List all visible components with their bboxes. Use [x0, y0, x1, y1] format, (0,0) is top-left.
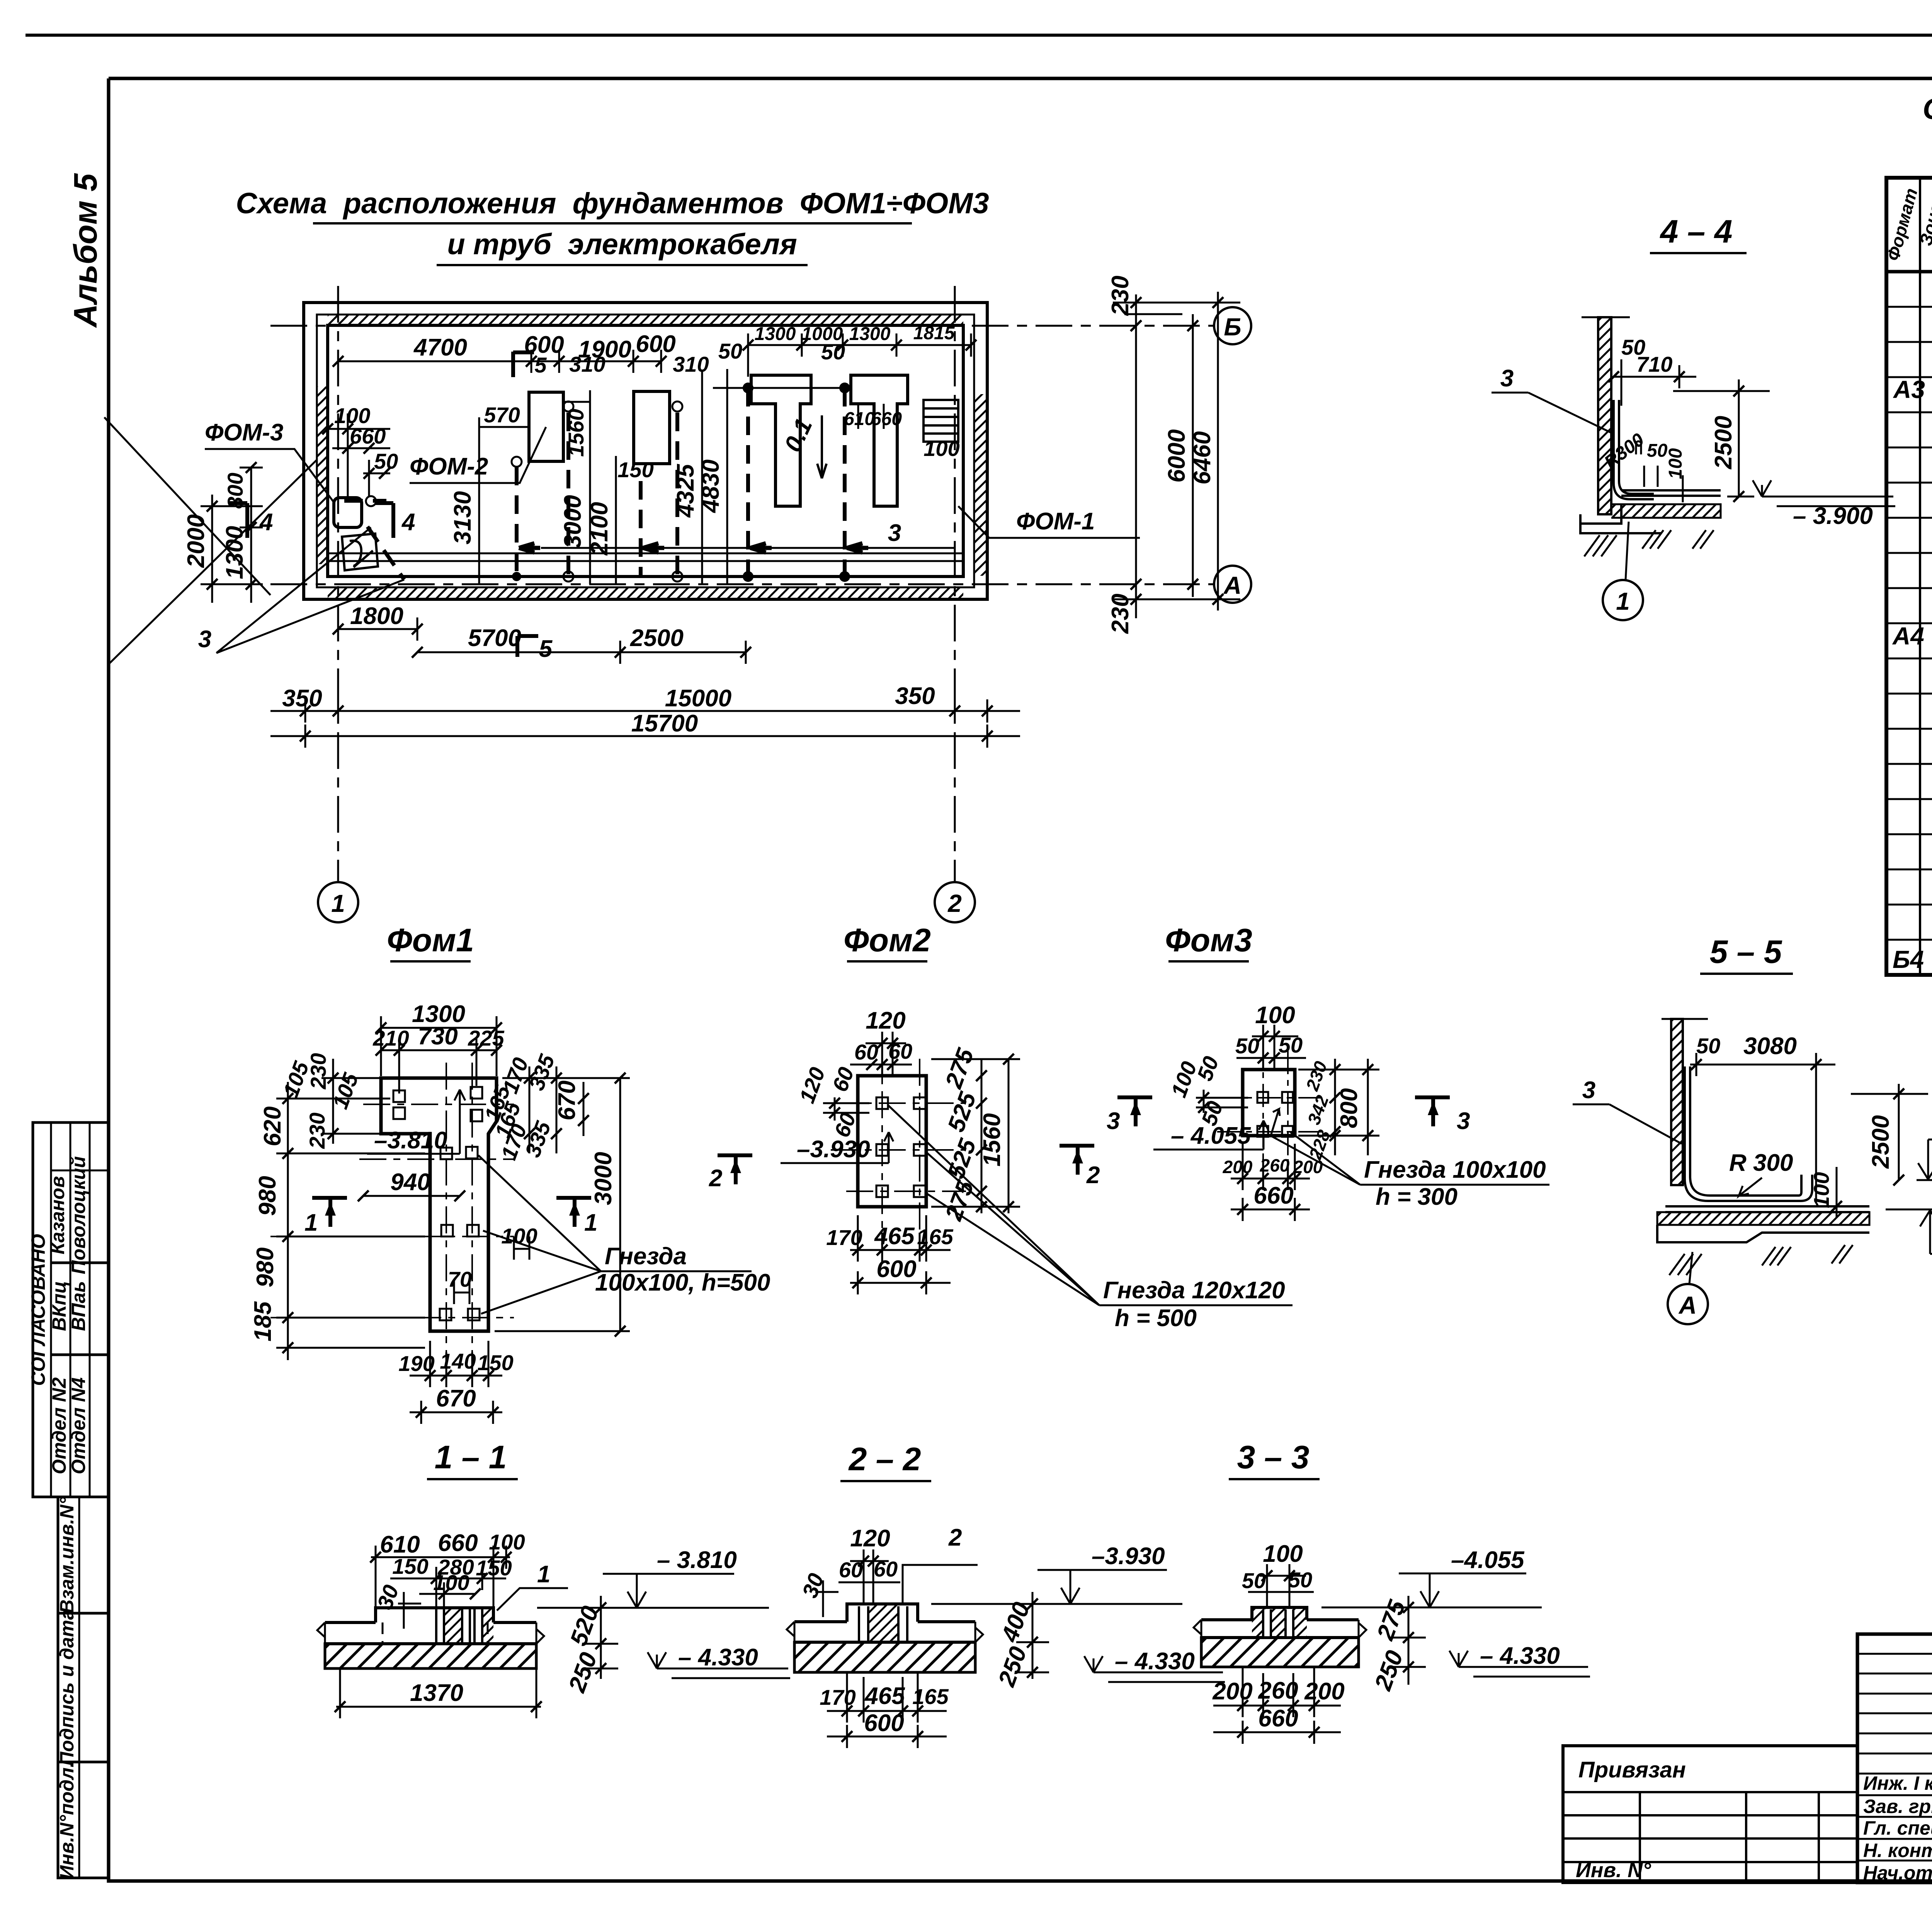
svg-text:50: 50: [1279, 1033, 1303, 1057]
svg-text:50: 50: [821, 340, 845, 364]
wall: [1662, 1018, 1708, 1020]
svg-text:4: 4: [259, 509, 273, 536]
svg-text:3080: 3080: [1743, 1033, 1797, 1060]
level -3.810: [628, 1592, 646, 1608]
svg-text:670: 670: [554, 1080, 580, 1120]
level -4.330: [1084, 1656, 1103, 1672]
svg-text:570: 570: [484, 403, 520, 427]
axis circle Б: [1214, 307, 1251, 344]
left vertical dims 2000 1300 800: [201, 468, 263, 603]
svg-text:660: 660: [1258, 1705, 1298, 1732]
svg-text:1815: 1815: [913, 323, 955, 344]
axis circle 1: [318, 882, 358, 922]
section mark 2 upper right: [718, 1155, 752, 1184]
bottom dims: [850, 1215, 951, 1294]
svg-text:150: 150: [476, 1556, 512, 1580]
svg-text:1: 1: [584, 1209, 597, 1236]
T outline: [381, 1078, 497, 1331]
bottom dim 1800: [338, 617, 417, 641]
svg-text:230: 230: [306, 1053, 330, 1089]
svg-text:ФОМ-1: ФОМ-1: [1016, 508, 1095, 535]
svg-text:50: 50: [1696, 1034, 1720, 1058]
wall hatch right: [974, 394, 987, 576]
svg-text:Фом2: Фом2: [844, 922, 931, 958]
svg-text:15000: 15000: [665, 685, 731, 712]
svg-text:Гнезда 100х100: Гнезда 100х100: [1364, 1156, 1546, 1183]
bottom dims 200 260 200 / 660: [1213, 1667, 1341, 1744]
svg-text:А4: А4: [1892, 622, 1924, 650]
гнезда squares: [393, 1087, 482, 1320]
svg-text:– 3.900: – 3.900: [1793, 503, 1873, 529]
callout circle А: [1668, 1284, 1708, 1324]
vertical dims 275 250: [1391, 1596, 1426, 1685]
svg-text:465: 465: [874, 1223, 915, 1250]
svg-text:100: 100: [1263, 1541, 1303, 1567]
grill at right wall: [923, 400, 958, 442]
svg-text:230: 230: [305, 1112, 329, 1149]
axis Б: [270, 286, 1214, 881]
svg-text:ВПаь: ВПаь: [68, 1281, 89, 1331]
svg-text:Фом3: Фом3: [1165, 922, 1252, 958]
svg-text:Б: Б: [1224, 313, 1241, 341]
pipe end circles: [512, 401, 682, 582]
svg-text:– 4.330: – 4.330: [678, 1644, 758, 1671]
svg-text:А: А: [1223, 571, 1242, 599]
building wall inner line: [328, 325, 963, 577]
svg-text:660: 660: [438, 1530, 478, 1556]
svg-text:50: 50: [374, 449, 398, 473]
centerlines: [1217, 1043, 1325, 1159]
arrow inside: [1271, 1109, 1280, 1134]
svg-text:3000: 3000: [590, 1152, 617, 1205]
svg-text:50: 50: [718, 339, 742, 363]
svg-text:310: 310: [569, 352, 605, 376]
thin measure verticals in plan: [479, 369, 884, 584]
level -3.930: [1061, 1588, 1080, 1604]
dim row top-right: 1300 1000 1300 1815: [748, 333, 971, 377]
svg-text:5: 5: [539, 636, 553, 662]
svg-text:Отдел N4: Отдел N4: [68, 1378, 89, 1475]
svg-text:60: 60: [839, 1558, 863, 1582]
svg-text:6000: 6000: [1163, 429, 1190, 483]
pipe: [1685, 1066, 1812, 1201]
specification table: [1883, 178, 1932, 976]
section mark 4 left: [230, 503, 247, 538]
section marks 2-2: [1060, 1146, 1094, 1175]
svg-text:и труб электрокабеля: и труб электрокабеля: [447, 228, 797, 261]
top rule: [26, 34, 1932, 37]
svg-text:3: 3: [1500, 365, 1514, 392]
svg-text:310: 310: [673, 352, 709, 376]
svg-text:3: 3: [1457, 1108, 1470, 1134]
svg-text:100: 100: [1809, 1172, 1833, 1208]
section mark 5 top: [511, 352, 515, 377]
svg-text:185: 185: [250, 1301, 276, 1342]
svg-text:2500: 2500: [1867, 1115, 1894, 1169]
svg-text:140: 140: [440, 1349, 476, 1373]
pipe vertical: [1614, 400, 1654, 499]
svg-text:Гнезда: Гнезда: [605, 1243, 687, 1270]
svg-text:Инв.N°подл.: Инв.N°подл.: [56, 1762, 78, 1879]
edge break marks: [317, 1622, 544, 1644]
floor slab: [1665, 1206, 1869, 1212]
svg-text:3 – 3: 3 – 3: [1237, 1439, 1310, 1475]
svg-text:ФОМ-2: ФОМ-2: [410, 453, 488, 480]
centerlines: [831, 1043, 966, 1233]
svg-text:4700: 4700: [413, 334, 467, 361]
svg-text:3: 3: [888, 520, 901, 546]
building outer wall: [304, 303, 987, 599]
axis circle 2: [935, 882, 975, 922]
svg-text:100х100, h=500: 100х100, h=500: [595, 1269, 770, 1296]
svg-text:Зав. гр.: Зав. гр.: [1863, 1796, 1932, 1817]
axis circle А: [1214, 566, 1251, 603]
right vertical dims 520 250: [583, 1596, 618, 1679]
svg-text:50: 50: [1235, 1034, 1259, 1058]
callout circle 1: [1603, 580, 1643, 620]
svg-text:610: 610: [844, 409, 875, 429]
svg-text:Взам.инв.N°: Взам.инв.N°: [56, 1497, 78, 1613]
squares: [1257, 1092, 1293, 1137]
svg-text:–3.930: –3.930: [797, 1136, 870, 1163]
svg-text:260: 260: [1258, 1677, 1298, 1704]
svg-text:710: 710: [1636, 352, 1672, 376]
svg-text:150: 150: [617, 457, 653, 482]
svg-text:980: 980: [252, 1247, 279, 1287]
foundation ФОМ-3 plan: [334, 498, 362, 527]
svg-text:5 – 5: 5 – 5: [1710, 934, 1782, 970]
svg-text:120: 120: [866, 1007, 905, 1034]
svg-text:170: 170: [820, 1685, 855, 1709]
svg-text:1300: 1300: [755, 324, 796, 344]
svg-text:100: 100: [501, 1224, 537, 1248]
svg-text:5700: 5700: [468, 625, 521, 651]
svg-text:Подпись и дата: Подпись и дата: [56, 1609, 78, 1765]
dim 100 / 30: [398, 1582, 475, 1629]
section marks 1-1: [312, 1198, 347, 1227]
svg-text:70: 70: [448, 1267, 472, 1291]
svg-text:660: 660: [1253, 1182, 1293, 1209]
svg-text:2: 2: [947, 889, 962, 917]
svg-text:1370: 1370: [410, 1680, 463, 1706]
svg-text:660: 660: [350, 424, 386, 448]
svg-text:50: 50: [1288, 1568, 1312, 1592]
svg-text:Фом1: Фом1: [387, 922, 474, 958]
svg-text:980: 980: [254, 1176, 281, 1216]
vertical dims 400 250: [1016, 1592, 1049, 1679]
svg-text:165: 165: [917, 1225, 953, 1249]
svg-text:1: 1: [304, 1209, 318, 1236]
rect outline: [1243, 1070, 1295, 1136]
svg-text:– 4.330: – 4.330: [1115, 1648, 1195, 1675]
dims 610 660 100: [371, 1546, 510, 1607]
svg-text:1 – 1: 1 – 1: [435, 1439, 507, 1475]
svg-text:ФОМ-3: ФОМ-3: [205, 419, 283, 446]
svg-text:Нач.отд.: Нач.отд.: [1863, 1862, 1932, 1884]
svg-text:670: 670: [436, 1385, 476, 1412]
svg-text:60: 60: [874, 1557, 898, 1581]
left approval stamp box: [27, 1122, 109, 1497]
squares: [876, 1097, 925, 1197]
floor channel lines inside: [328, 553, 963, 554]
svg-text:6460: 6460: [1189, 431, 1216, 485]
pipe stub: [1636, 441, 1641, 454]
section marks 3-3: [1117, 1097, 1152, 1126]
svg-text:– 4.055: – 4.055: [1171, 1122, 1251, 1149]
ground hatched band: [325, 1644, 536, 1668]
svg-text:3: 3: [198, 626, 211, 653]
channels: [1263, 1609, 1293, 1638]
svg-text:3: 3: [1582, 1077, 1595, 1104]
svg-text:3000: 3000: [560, 495, 586, 548]
svg-text:4 – 4: 4 – 4: [1660, 213, 1733, 250]
svg-text:100: 100: [489, 1530, 525, 1554]
svg-text:2000: 2000: [183, 514, 209, 568]
svg-text:465: 465: [864, 1683, 905, 1709]
svg-text:Казанов: Казанов: [47, 1176, 68, 1255]
bottom dims 190 140 150 / 670: [410, 1341, 502, 1424]
svg-text:230: 230: [1107, 594, 1134, 634]
foundation ФОМ-2 plan rect 2: [634, 391, 670, 464]
svg-text:Схема расположения фундамент: Схема расположения фундаментов ФОМ1÷ФОМ3: [236, 187, 989, 220]
left inventory stamp box: [56, 1497, 109, 1879]
svg-text:1: 1: [1616, 587, 1630, 615]
dims 150 280 150: [390, 1567, 506, 1607]
svg-text:260: 260: [1260, 1155, 1290, 1175]
ground hatched band: [1201, 1638, 1359, 1667]
svg-text:– 4.330: – 4.330: [1480, 1643, 1560, 1669]
svg-text:4: 4: [401, 509, 415, 536]
svg-text:120: 120: [850, 1525, 890, 1552]
dim 210 730 225: [381, 1039, 497, 1094]
svg-text:100: 100: [1665, 448, 1686, 479]
dim 2500 + level -3.900: [1673, 379, 1770, 497]
small pit square with curl below ФОМ-3: [342, 534, 378, 570]
svg-text:Отдел N2: Отдел N2: [48, 1377, 70, 1474]
section mark 4 right: [376, 503, 393, 538]
svg-text:Н. контр: Н. контр: [1863, 1840, 1932, 1861]
level -4.055: [1420, 1591, 1439, 1607]
bottom dim 15700: [270, 724, 1020, 748]
svg-text:230: 230: [1107, 276, 1134, 316]
foundation ФОМ-1 plan T2: [851, 375, 908, 506]
svg-text:Альбом 5: Альбом 5: [67, 173, 104, 328]
section mark 5 bottom: [517, 634, 538, 638]
svg-text:620: 620: [259, 1106, 286, 1146]
svg-text:А: А: [1678, 1291, 1697, 1319]
foundation ФОМ-1 plan T1: [751, 375, 811, 506]
bottom dim 350 15000 350: [270, 699, 1020, 723]
pipe bottom elbows: [519, 543, 868, 553]
svg-text:150: 150: [477, 1350, 513, 1375]
svg-text:2: 2: [948, 1524, 962, 1551]
ground hatched band: [794, 1642, 975, 1672]
bottom dims 170 465 165 / 600: [827, 1672, 947, 1748]
svg-text:СОГЛАСОВАНО: СОГЛАСОВАНО: [27, 1234, 49, 1386]
svg-text:190: 190: [398, 1351, 434, 1376]
svg-text:200: 200: [1304, 1678, 1344, 1705]
foundation ФОМ-2 plan rect 1: [529, 392, 563, 461]
svg-text:–4.055: –4.055: [1451, 1547, 1525, 1573]
slab and block outline: [794, 1620, 975, 1623]
svg-text:600: 600: [864, 1710, 904, 1736]
svg-text:Гл. спец.: Гл. спец.: [1863, 1817, 1932, 1839]
bottom dim 5700 / 2500: [417, 641, 746, 664]
svg-text:1: 1: [537, 1561, 550, 1588]
svg-text:1800: 1800: [350, 603, 403, 629]
channels: [436, 1608, 482, 1644]
svg-text:1300: 1300: [221, 526, 248, 579]
svg-text:h = 500: h = 500: [1115, 1305, 1197, 1332]
svg-text:– 3.810: – 3.810: [657, 1547, 737, 1573]
svg-text:150: 150: [392, 1554, 428, 1578]
title block: central signature grid: [1857, 1634, 1932, 1891]
svg-text:Инв. N°: Инв. N°: [1576, 1859, 1651, 1882]
level -4.330: [648, 1652, 666, 1668]
svg-text:1300: 1300: [849, 324, 891, 344]
svg-text:3: 3: [1107, 1108, 1120, 1134]
dimension tick marks: [207, 297, 1904, 1742]
svg-text:600: 600: [876, 1256, 916, 1282]
floor slab: [1621, 490, 1721, 496]
rect outline: [858, 1076, 926, 1207]
hidden dashes: [383, 1622, 488, 1644]
wall cut: [1582, 316, 1630, 318]
svg-text:2500: 2500: [1710, 416, 1737, 469]
svg-text:100: 100: [1255, 1002, 1295, 1029]
dim 1370: [336, 1668, 541, 1718]
svg-text:R 300: R 300: [1729, 1150, 1793, 1176]
ground ticks: [1669, 1245, 1853, 1275]
svg-text:h = 300: h = 300: [1376, 1184, 1458, 1210]
svg-text:Инж. I к.: Инж. I к.: [1863, 1772, 1932, 1794]
svg-text:730: 730: [418, 1023, 457, 1050]
centerlines: [270, 1063, 514, 1352]
svg-text:1: 1: [331, 889, 345, 917]
svg-text:800: 800: [223, 473, 247, 509]
block hatch: [444, 1608, 462, 1644]
right vertical dims 230 6000 6460 230: [1113, 292, 1240, 618]
bottom dims 200 260 200 / 660: [1231, 1144, 1310, 1221]
svg-text:4325: 4325: [672, 464, 699, 518]
slab and block outline: [1201, 1618, 1359, 1621]
wall hatch top: [328, 315, 963, 325]
dim 1300: [381, 1016, 497, 1076]
building wall middle line: [317, 315, 974, 587]
svg-text:50: 50: [1647, 440, 1668, 461]
ground hatch ticks: [1584, 530, 1714, 556]
svg-text:200: 200: [1293, 1157, 1323, 1177]
svg-text:–3.810: –3.810: [374, 1127, 447, 1154]
svg-text:165: 165: [912, 1684, 949, 1709]
svg-text:Б4: Б4: [1893, 946, 1924, 973]
svg-text:2500: 2500: [630, 625, 684, 651]
svg-text:Гнезда 120х120: Гнезда 120х120: [1103, 1277, 1285, 1304]
svg-text:1560: 1560: [564, 409, 588, 457]
pipe end dots: [512, 383, 850, 582]
svg-text:15700: 15700: [631, 710, 698, 737]
svg-text:350: 350: [282, 685, 322, 712]
svg-text:–3.930: –3.930: [1092, 1543, 1165, 1570]
svg-text:2 – 2: 2 – 2: [848, 1441, 921, 1477]
svg-text:940: 940: [390, 1169, 430, 1196]
slab and block outline: [325, 1621, 536, 1624]
svg-text:Спецификация фундаментов обору: Спецификация фундаментов оборудования и …: [1923, 93, 1932, 126]
svg-text:350: 350: [895, 683, 935, 709]
dim row top-left: 4700 600 1900 600: [338, 350, 661, 386]
electric pipes: bold dashed verticals: [344, 388, 845, 580]
title block: left attachment box (Привязан): [1563, 1746, 1857, 1883]
svg-text:170: 170: [826, 1225, 862, 1250]
svg-text:100: 100: [433, 1570, 469, 1595]
svg-text:660: 660: [871, 409, 902, 429]
svg-text:2: 2: [709, 1165, 722, 1192]
svg-text:А3: А3: [1893, 376, 1925, 403]
svg-text:600: 600: [636, 331, 675, 357]
wall hatch bottom: [328, 587, 963, 599]
level -4.330: [1449, 1651, 1468, 1667]
svg-text:Привязан: Привязан: [1578, 1757, 1686, 1782]
svg-text:3130: 3130: [449, 491, 476, 544]
svg-text:ВКпц: ВКпц: [48, 1281, 70, 1331]
wall hatch left: [317, 386, 328, 564]
svg-text:100: 100: [923, 436, 959, 461]
svg-text:1560: 1560: [979, 1113, 1005, 1167]
svg-text:2: 2: [1086, 1162, 1100, 1189]
svg-text:Поволоцкий: Поволоцкий: [68, 1156, 89, 1274]
channels: [859, 1606, 907, 1642]
